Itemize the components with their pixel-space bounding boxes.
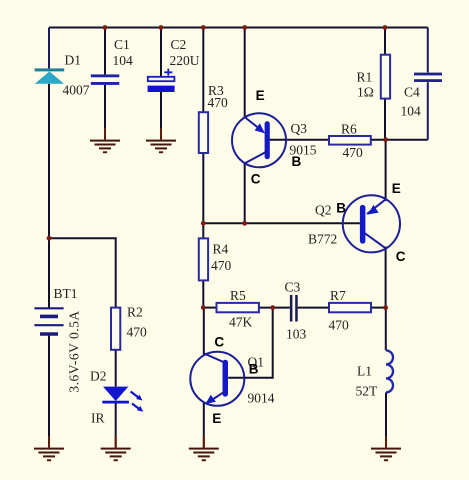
svg-text:47K: 47K — [229, 315, 253, 330]
ground bottom-left — [34, 448, 64, 462]
wire Q1 emitter to ground — [203, 402, 205, 447]
capacitor C1 — [91, 74, 120, 85]
wire C4 branch top — [427, 28, 429, 73]
wire battery to ground — [48, 335, 50, 448]
svg-text:3.6V-6V 0.5A: 3.6V-6V 0.5A — [66, 310, 81, 392]
capacitor C2 polarized — [148, 69, 175, 92]
transistor Q2 PNP — [343, 195, 400, 252]
wire C1 top — [104, 28, 106, 75]
node R6 R1 junction — [383, 137, 388, 142]
node top C1 — [103, 25, 108, 30]
svg-text:470: 470 — [211, 258, 232, 273]
svg-text:Q3: Q3 — [291, 121, 308, 136]
svg-text:E: E — [256, 88, 265, 103]
node top Q3 — [242, 25, 247, 30]
svg-text:L1: L1 — [357, 364, 372, 379]
capacitor C3 — [290, 295, 298, 322]
resistor R4 — [199, 238, 208, 280]
svg-text:E: E — [392, 181, 401, 196]
wire Q1 base L — [228, 308, 273, 378]
wire R1 top — [384, 28, 386, 55]
ground stem red tint L1 — [385, 436, 387, 448]
wire C4 branch bottom — [427, 82, 429, 140]
svg-text:C2: C2 — [171, 37, 187, 52]
wire top bus — [49, 27, 428, 29]
wire L1 to ground — [385, 392, 387, 447]
svg-text:470: 470 — [127, 325, 148, 340]
wire C1 to ground — [104, 85, 106, 140]
node R7 L1 junction — [383, 305, 388, 310]
svg-text:Q2: Q2 — [315, 203, 332, 218]
resistor R3 — [199, 112, 208, 153]
svg-text:1Ω: 1Ω — [357, 85, 374, 100]
resistor R2 — [111, 308, 120, 350]
node battery branch — [47, 236, 52, 241]
svg-text:C4: C4 — [404, 85, 420, 100]
wire Q2 base bus — [203, 222, 360, 224]
svg-text:52T: 52T — [356, 384, 379, 399]
capacitor C4 — [414, 73, 442, 82]
ground under Q1 — [189, 448, 219, 462]
LED D2 — [102, 387, 143, 412]
diode D1 — [35, 68, 65, 83]
svg-text:R4: R4 — [213, 242, 229, 257]
svg-text:4007: 4007 — [63, 83, 90, 98]
svg-text:B: B — [292, 154, 302, 169]
wire R5 to C3 — [259, 307, 290, 309]
transistor Q1 NPN — [190, 352, 244, 406]
node R4 R5 junction — [201, 305, 206, 310]
node base bus left — [201, 221, 206, 226]
svg-text:D1: D1 — [65, 53, 82, 68]
svg-text:C3: C3 — [285, 280, 301, 295]
resistor R1 — [381, 55, 390, 99]
svg-text:R6: R6 — [341, 122, 357, 137]
svg-text:C: C — [251, 172, 261, 187]
svg-text:104: 104 — [113, 53, 134, 68]
node top R1 — [383, 25, 388, 30]
node top C2 — [159, 25, 164, 30]
wire R6 to C4 corner — [371, 139, 428, 141]
ground stem red tint bottom-left — [48, 436, 50, 448]
svg-text:R7: R7 — [330, 288, 346, 303]
resistor R6 — [329, 136, 371, 145]
svg-text:9014: 9014 — [248, 391, 275, 406]
svg-text:IR: IR — [91, 411, 105, 426]
svg-text:B772: B772 — [308, 232, 337, 247]
inductor L1 — [386, 350, 393, 392]
svg-text:C: C — [396, 249, 406, 264]
svg-text:R5: R5 — [230, 288, 246, 303]
ground stem red tint C1 — [104, 128, 106, 140]
wire D2 to ground — [115, 403, 117, 447]
wire R2 to D2 — [115, 350, 117, 387]
wire node to Q2 emitter — [385, 140, 387, 201]
svg-text:R1: R1 — [357, 70, 373, 85]
wire Q3 emitter drop — [244, 28, 246, 118]
wire node to Q1 collector — [203, 308, 205, 355]
battery BT1 — [34, 308, 63, 334]
svg-text:470: 470 — [343, 145, 364, 160]
wire R5 bus — [203, 307, 216, 309]
svg-text:220U: 220U — [170, 53, 200, 68]
wire R7 to node — [371, 307, 386, 309]
ground stem red tint C2 — [160, 128, 162, 140]
wire C3 to R7 — [298, 307, 329, 309]
wire C2 to ground — [160, 92, 162, 140]
ground under D2 — [101, 448, 131, 462]
svg-text:BT1: BT1 — [54, 286, 78, 301]
wire C2 top — [160, 28, 162, 77]
wire Q2 collector to L1 — [385, 247, 387, 351]
ground under C1 — [90, 140, 120, 154]
wire left vertical (D1 to battery) — [48, 84, 50, 308]
resistor R7 — [329, 303, 371, 312]
svg-text:D2: D2 — [90, 369, 107, 384]
wire R4 to R5 node — [202, 280, 204, 307]
svg-text:B: B — [336, 201, 346, 216]
svg-text:B: B — [249, 362, 259, 377]
wire R3 top — [202, 28, 204, 113]
wire Q3 base to R6 — [270, 139, 329, 141]
wire R3 to R4 — [202, 153, 204, 238]
ground under C2 — [146, 140, 176, 154]
node top R3 — [201, 25, 206, 30]
wire left vertical upper (top bus to D1) — [48, 28, 50, 69]
ground stem red tint Q1 — [203, 436, 205, 448]
svg-text:E: E — [212, 411, 221, 426]
svg-text:104: 104 — [401, 104, 422, 119]
svg-text:103: 103 — [286, 327, 307, 342]
svg-text:R2: R2 — [127, 305, 143, 320]
wire R1 bottom — [384, 99, 386, 140]
svg-text:C: C — [214, 335, 224, 350]
svg-text:470: 470 — [329, 318, 350, 333]
transistor Q3 PNP — [232, 113, 286, 167]
resistor R5 — [217, 303, 259, 312]
svg-text:470: 470 — [208, 95, 229, 110]
node base bus Q3 — [242, 221, 247, 226]
wire Q3 collector drop — [244, 163, 246, 223]
svg-text:C1: C1 — [114, 37, 130, 52]
wire branch to R2 — [49, 238, 116, 307]
ground stem red tint D2 — [115, 436, 117, 448]
node R5 C3 junction — [270, 305, 275, 310]
ground under L1 — [371, 448, 401, 462]
